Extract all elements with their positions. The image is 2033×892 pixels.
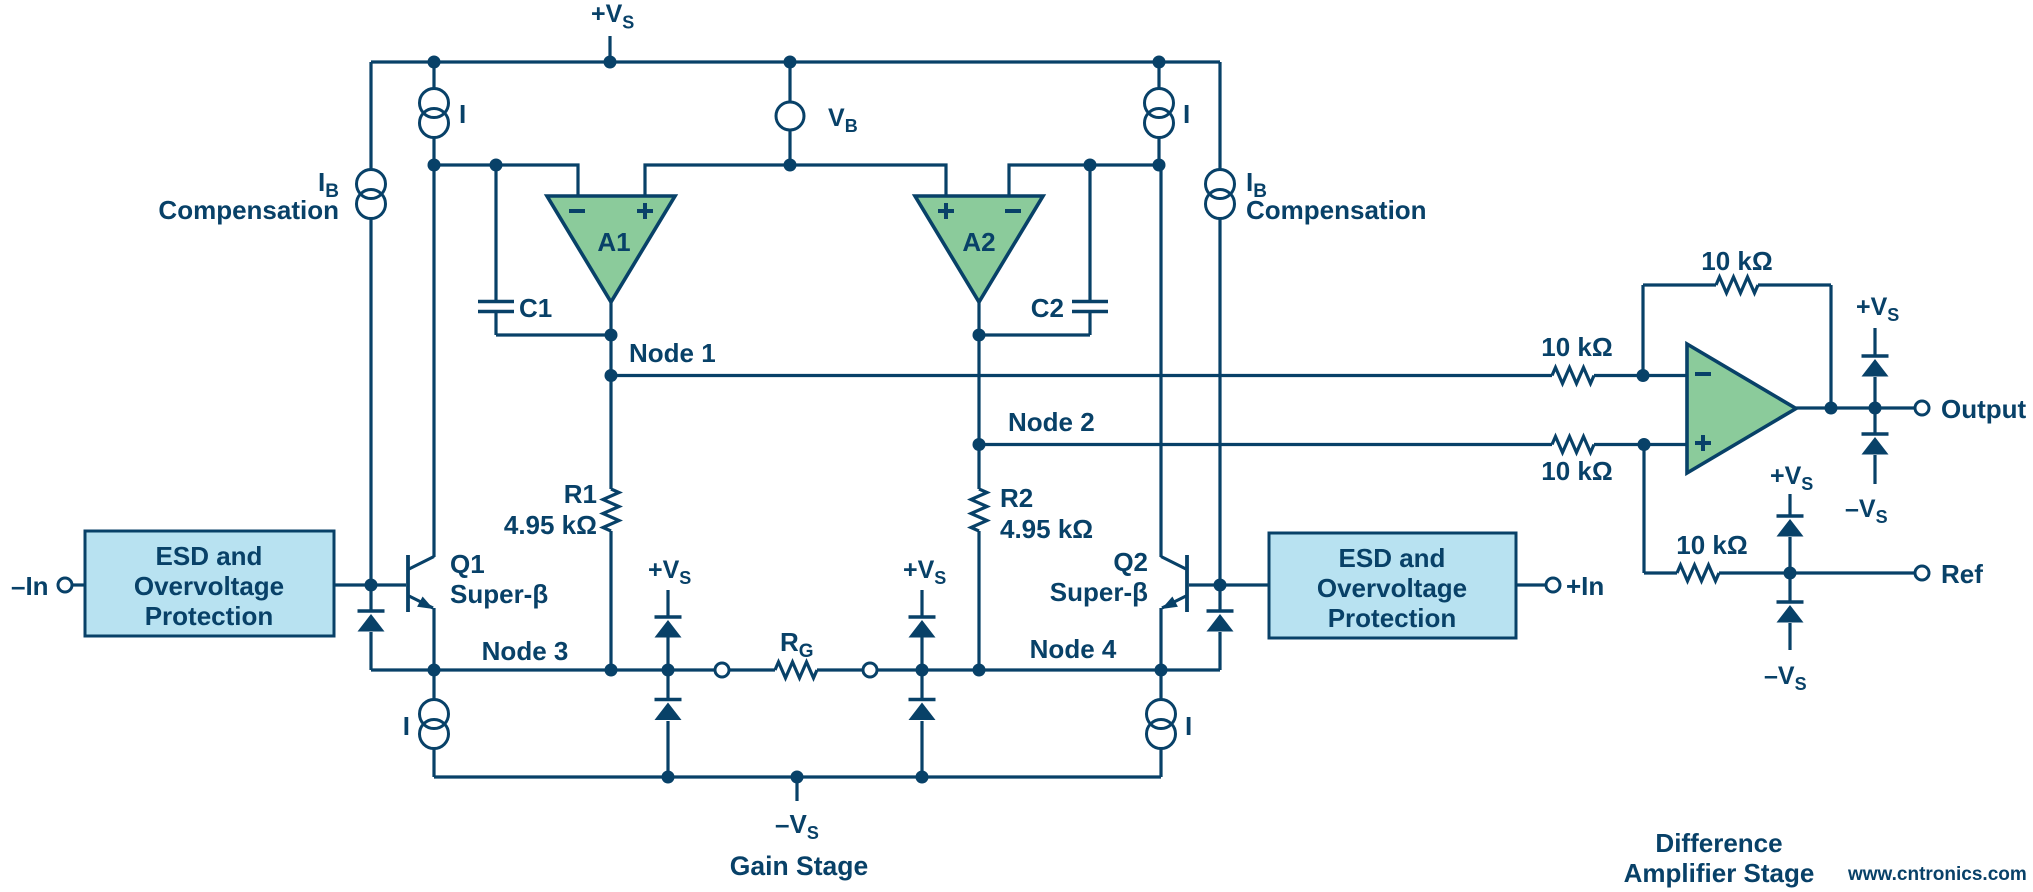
svg-text:Overvoltage: Overvoltage — [134, 571, 284, 601]
svg-text:+In: +In — [1566, 571, 1604, 601]
svg-text:I: I — [1185, 711, 1192, 741]
svg-text:ESD and: ESD and — [1339, 543, 1446, 573]
diode clamp left input — [358, 585, 385, 670]
transistor Q2 — [1161, 555, 1187, 612]
wire ESD box to Q1 base — [334, 583, 406, 586]
svg-text:+VS: +VS — [1856, 293, 1899, 325]
svg-text:4.95 kΩ: 4.95 kΩ — [504, 510, 597, 540]
wire -In to ESD box — [72, 583, 85, 586]
node dot R2 bottom — [973, 664, 986, 677]
wire terminal to RG — [729, 668, 775, 671]
svg-text:Compensation: Compensation — [1246, 195, 1427, 225]
svg-text:–VS: –VS — [1764, 662, 1807, 694]
wire feedback right vertical — [1829, 285, 1832, 408]
resistor R2 — [971, 489, 987, 531]
current source IB compensation left — [357, 170, 386, 219]
node dot clamp at output — [1869, 402, 1882, 415]
svg-text:RG: RG — [780, 627, 814, 662]
wire feedback left vertical — [1641, 285, 1644, 376]
node dot top rail left — [428, 56, 441, 69]
wire feedback top right — [1758, 283, 1831, 286]
ESD and Overvoltage Protection box left — [85, 531, 334, 636]
wire C1 to A1 output — [496, 333, 611, 336]
wire VB stub bottom — [788, 130, 791, 165]
svg-text:Q2: Q2 — [1113, 547, 1148, 577]
diode output clamp lower — [1862, 408, 1889, 484]
diode clamp lower left — [655, 670, 682, 777]
wire R1 down — [609, 531, 612, 670]
svg-text:Node 4: Node 4 — [1030, 634, 1117, 664]
node dot ref clamp — [1784, 567, 1797, 580]
svg-text:I: I — [459, 99, 466, 129]
node dot emitter Q2 — [1155, 664, 1168, 677]
svg-text:A1: A1 — [597, 227, 630, 257]
wire ref left — [1644, 571, 1677, 574]
node dot noninverting input — [1638, 438, 1651, 451]
wire bottom rail — [434, 775, 1161, 778]
terminal +In — [1546, 578, 1560, 592]
terminal RG left — [715, 663, 729, 677]
op-amp A2 — [915, 196, 1043, 302]
svg-text:10 kΩ: 10 kΩ — [1541, 332, 1612, 362]
svg-text:+VS: +VS — [903, 556, 946, 588]
svg-text:Super-β: Super-β — [1050, 577, 1148, 607]
wire Node 2 to difference stage — [979, 443, 1552, 446]
wire node2 resistor to op-amp — [1594, 443, 1687, 446]
node dot rail2 at collector right — [1153, 159, 1166, 172]
svg-text:Super-β: Super-β — [450, 579, 548, 609]
svg-text:I: I — [403, 711, 410, 741]
wire rail2 segment B — [645, 165, 946, 196]
op-amp A1 — [547, 196, 675, 302]
wire ESD box to Q2 base — [1189, 583, 1269, 586]
svg-text:+VS: +VS — [591, 0, 634, 33]
svg-text:–VS: –VS — [775, 809, 819, 843]
resistor 10k ref — [1677, 565, 1719, 581]
diode clamp right input — [1207, 585, 1234, 670]
wire top to current source I right — [1157, 62, 1160, 89]
svg-text:C2: C2 — [1031, 293, 1064, 323]
wire rail2 segment C — [1009, 165, 1161, 196]
wire Q2 collector up — [1159, 165, 1162, 557]
wire Node 1 to difference stage — [611, 374, 1552, 377]
node dot rail2 at collector left — [428, 159, 441, 172]
wire node1 resistor to op-amp — [1594, 374, 1687, 377]
node dot top rail VB — [784, 56, 797, 69]
current source I top right — [1145, 89, 1174, 138]
wire Q2 emitter down — [1159, 608, 1162, 670]
diode clamp upper right — [909, 590, 936, 670]
node dot diode chain left — [662, 664, 675, 677]
wire I right to rail2 — [1157, 138, 1160, 166]
svg-text:+VS: +VS — [1770, 462, 1813, 494]
wire I left to rail2 — [432, 138, 435, 166]
resistor 10k node1 input — [1552, 368, 1594, 384]
wire top to current source I left — [432, 62, 435, 89]
wire left edge vertical — [369, 62, 372, 170]
node dot R1 bottom — [605, 664, 618, 677]
svg-text:Difference: Difference — [1655, 828, 1782, 858]
terminal Output — [1915, 401, 1929, 415]
svg-text:Amplifier Stage: Amplifier Stage — [1624, 858, 1815, 888]
svg-text:Node 3: Node 3 — [482, 636, 569, 666]
svg-text:Gain Stage: Gain Stage — [730, 851, 868, 881]
wire top rail +Vs — [371, 60, 1220, 63]
node dot base wire right — [1214, 579, 1227, 592]
svg-text:10 kΩ: 10 kΩ — [1541, 456, 1612, 486]
node dot bottom rail -Vs — [791, 771, 804, 784]
wire +In to ESD box — [1516, 583, 1546, 586]
resistor 10k node2 input — [1552, 437, 1594, 453]
svg-text:–In: –In — [11, 571, 49, 601]
wire +Vs stub — [608, 36, 611, 62]
node dot top rail right — [1153, 56, 1166, 69]
resistor R1 — [603, 489, 619, 531]
terminal RG right — [863, 663, 877, 677]
wire C2 to A2 output — [979, 333, 1090, 336]
wire A1 output down — [609, 302, 612, 489]
svg-text:Protection: Protection — [145, 601, 274, 631]
svg-text:R1: R1 — [564, 479, 597, 509]
svg-text:Q1: Q1 — [450, 549, 485, 579]
node dot bottom rail left — [662, 771, 675, 784]
node Node 2 dot — [973, 438, 986, 451]
ESD and Overvoltage Protection box right — [1269, 533, 1516, 638]
wire IB left down to base node — [369, 219, 372, 586]
svg-text:10 kΩ: 10 kΩ — [1701, 246, 1772, 276]
node dot inverting input — [1637, 369, 1650, 382]
wire Q1 collector up — [432, 165, 435, 557]
wire noninverting branch down — [1642, 445, 1645, 574]
svg-text:Node 1: Node 1 — [629, 338, 716, 368]
svg-text:Protection: Protection — [1328, 603, 1457, 633]
current source IB compensation right — [1206, 170, 1235, 219]
wire output — [1796, 406, 1915, 409]
wire node3 run — [371, 668, 715, 671]
resistor RG — [775, 662, 817, 678]
wire R2 down — [977, 531, 980, 670]
terminal -In — [58, 578, 72, 592]
node dot base wire left — [365, 579, 378, 592]
diode clamp upper left — [655, 590, 682, 670]
wire IB right down to base node — [1218, 219, 1221, 586]
svg-text:4.95 kΩ: 4.95 kΩ — [1000, 514, 1093, 544]
svg-text:I: I — [1183, 99, 1190, 129]
node dot rail2 at C1 — [490, 159, 503, 172]
node dot bottom rail right — [916, 771, 929, 784]
wire right edge vertical — [1218, 62, 1221, 170]
node dot top rail +Vs — [604, 56, 617, 69]
svg-text:ESD and: ESD and — [156, 541, 263, 571]
node dot diode chain right — [916, 664, 929, 677]
wire node4 run — [877, 668, 1220, 671]
svg-text:Compensation: Compensation — [158, 195, 339, 225]
transistor Q1 — [408, 555, 434, 612]
terminal Ref — [1915, 566, 1929, 580]
wire A2 output down — [977, 302, 980, 489]
current source I top left — [420, 89, 449, 138]
node dot C1 at A1 output — [605, 329, 618, 342]
wire Q1 emitter down — [432, 608, 435, 670]
wire VB stub top — [788, 62, 791, 102]
op-amp difference A3 — [1687, 344, 1796, 473]
svg-text:A2: A2 — [962, 227, 995, 257]
diode clamp lower right — [909, 670, 936, 777]
node dot rail2 at C2 — [1084, 159, 1097, 172]
node Node 1 dot — [605, 369, 618, 382]
svg-text:Output: Output — [1941, 394, 2027, 424]
svg-text:Ref: Ref — [1941, 559, 1983, 589]
voltage source VB — [776, 102, 804, 130]
svg-text:+VS: +VS — [648, 556, 691, 588]
diode output clamp upper — [1862, 328, 1889, 408]
diode ref clamp lower — [1777, 573, 1804, 650]
current source I bottom left — [420, 670, 449, 777]
node dot rail2 at VB — [784, 159, 797, 172]
wire rail2 segment A — [434, 165, 578, 196]
capacitor C1 — [478, 165, 514, 335]
node dot feedback at output — [1825, 402, 1838, 415]
svg-text:Overvoltage: Overvoltage — [1317, 573, 1467, 603]
node dot C2 at A2 output — [973, 329, 986, 342]
svg-text:C1: C1 — [519, 293, 552, 323]
capacitor C2 — [1072, 165, 1108, 335]
node dot emitter Q1 — [428, 664, 441, 677]
resistor 10k feedback — [1716, 277, 1758, 293]
diode ref clamp upper — [1777, 494, 1804, 573]
wire ref right — [1719, 571, 1915, 574]
svg-text:Node 2: Node 2 — [1008, 407, 1095, 437]
svg-text:–VS: –VS — [1845, 495, 1888, 527]
wire RG to terminal — [817, 668, 863, 671]
svg-text:VB: VB — [828, 104, 858, 136]
svg-text:R2: R2 — [1000, 483, 1033, 513]
svg-text:www.cntronics.com: www.cntronics.com — [1847, 864, 2027, 885]
wire feedback top left — [1643, 283, 1716, 286]
svg-text:10 kΩ: 10 kΩ — [1676, 530, 1747, 560]
wire -Vs stub — [795, 777, 798, 801]
current source I bottom right — [1147, 670, 1176, 777]
